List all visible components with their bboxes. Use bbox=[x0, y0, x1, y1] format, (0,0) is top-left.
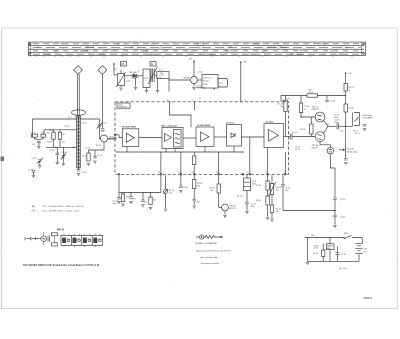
svg-text:C1.34: C1.34 bbox=[183, 187, 188, 189]
wire decoupling chain top bbox=[334, 168, 336, 198]
svg-text:C26–L64–C9: C26–L64–C9 bbox=[290, 54, 303, 56]
pin dot 2 bbox=[180, 174, 182, 176]
svg-text:C1.15: C1.15 bbox=[295, 147, 300, 149]
svg-text:100μ: 100μ bbox=[334, 117, 338, 119]
ground C1.35 bbox=[192, 206, 196, 208]
svg-text:C1.10: C1.10 bbox=[82, 172, 87, 174]
svg-text:R1.19: R1.19 bbox=[349, 108, 354, 110]
gen resistor bottom bbox=[52, 243, 58, 246]
switch bank pin ticks bbox=[64, 234, 100, 247]
wire B3 to B4 bbox=[214, 136, 227, 138]
block B1 RF amplifier bbox=[122, 129, 139, 147]
svg-text:2: 2 bbox=[102, 70, 104, 72]
ferrite rod antenna stem 2 bbox=[78, 74, 80, 116]
wire pin leg 4 bbox=[218, 152, 220, 174]
wire B4 to B5 bbox=[242, 136, 265, 138]
wire B2 bottom leg b bbox=[174, 149, 176, 153]
wire pot feed bbox=[271, 175, 273, 183]
wire C1.05 bottom bbox=[39, 161, 41, 165]
bar wire dashes row 3 bbox=[33, 50, 361, 52]
ground R1.24 bbox=[266, 218, 270, 220]
wire +VB right stub bbox=[345, 74, 347, 84]
svg-text:50k: 50k bbox=[169, 193, 172, 195]
wire R1.19 down bbox=[345, 112, 347, 158]
wire C1.35 down bbox=[193, 201, 195, 205]
bar right terminal column bbox=[361, 42, 363, 56]
wire pin2 stub down bbox=[180, 175, 182, 185]
wire U2 bottom left bbox=[196, 87, 203, 89]
svg-text:2V: 2V bbox=[327, 124, 330, 126]
ferrite rod body bbox=[77, 116, 81, 168]
wire R1.18 top bbox=[310, 117, 312, 124]
cap C1.35 bbox=[192, 199, 196, 201]
wire Q1 emitter join bbox=[324, 120, 329, 133]
junction dot output bbox=[345, 126, 346, 127]
svg-text:C1.06: C1.06 bbox=[49, 150, 55, 152]
pin dot 6 bbox=[249, 174, 251, 176]
wire R1.15 down bbox=[285, 112, 287, 137]
svg-text:L75–C35: L75–C35 bbox=[252, 44, 261, 46]
junction dot U2 b bbox=[214, 88, 215, 89]
page margin mark bbox=[1, 157, 5, 162]
ground under R1.05 bbox=[87, 164, 91, 166]
pin dot 5 bbox=[242, 174, 244, 176]
IC internal bottom rail bbox=[116, 151, 244, 153]
svg-text:2: 2 bbox=[112, 133, 113, 135]
wire R1.06 down bbox=[218, 193, 220, 208]
rod bottom wire bbox=[78, 168, 80, 170]
wire V join right bbox=[39, 137, 43, 140]
svg-text:16: 16 bbox=[158, 172, 160, 174]
svg-text:C58–L12: C58–L12 bbox=[140, 51, 149, 53]
FM filter box Y1 bbox=[157, 72, 169, 79]
IC1 dashed outline bbox=[115, 102, 289, 175]
supply stub arrowhead bbox=[113, 62, 115, 64]
resistor R1.18 bbox=[310, 124, 313, 134]
resistor R1.24 bbox=[266, 196, 269, 205]
svg-text:50μ: 50μ bbox=[197, 202, 200, 204]
bar end circle top bbox=[363, 43, 365, 45]
wire diode to osc coil bbox=[136, 75, 143, 77]
R1.08 arrow bbox=[268, 182, 275, 197]
svg-text:Sp–01M: Sp–01M bbox=[347, 148, 355, 150]
wire AGC feedback bbox=[283, 210, 335, 212]
wire gang to filter box bbox=[155, 75, 157, 77]
coupling cap C1.14 bbox=[290, 134, 292, 140]
svg-text:C1.25: C1.25 bbox=[340, 217, 346, 219]
test point diamond T2 bbox=[98, 66, 107, 75]
ground under C1.06 bbox=[56, 163, 60, 165]
svg-text:L7.1: L7.1 bbox=[219, 83, 224, 85]
trimmer C1.08 bbox=[62, 156, 66, 158]
wire pin2 to RF amp bbox=[116, 135, 122, 138]
svg-text:Amplifier: Amplifier bbox=[266, 120, 275, 123]
ground volume bbox=[164, 209, 168, 211]
svg-text:L1.02: L1.02 bbox=[82, 123, 87, 125]
svg-text:Measured with FM mute 0.05 m: Measured with FM mute 0.05 mV 5% bbox=[196, 250, 230, 253]
svg-text:R1.22: R1.22 bbox=[349, 87, 355, 89]
svg-text:Fig. 7(a): Fig. 7(a) bbox=[339, 268, 347, 270]
resistor R1.31 bbox=[121, 194, 124, 202]
svg-text:87.5 – 100 MHz (3.00 – 3.43 m): 87.5 – 100 MHz (3.00 – 3.43 m) – 3.2 m bbox=[43, 211, 80, 213]
BU1 aux cap bbox=[363, 125, 367, 127]
wire FM to mixer diode bbox=[125, 75, 134, 77]
svg-text:1k: 1k bbox=[349, 90, 351, 92]
preset R1.08 bbox=[270, 184, 273, 195]
wire C1.19 down bbox=[282, 186, 284, 211]
wire R1.22 down bbox=[345, 91, 347, 104]
supply stub left bbox=[113, 64, 115, 76]
svg-text:2p2: 2p2 bbox=[102, 131, 105, 133]
IF transformer S1.4 feed bbox=[246, 174, 248, 178]
wire chain mid bbox=[334, 200, 336, 215]
svg-text:+VB: +VB bbox=[311, 235, 316, 237]
svg-text:S1.02: S1.02 bbox=[96, 145, 101, 147]
resistor R1.05 bbox=[87, 153, 90, 161]
resistor R1.16 bbox=[299, 103, 302, 113]
wire under R1.04 bbox=[59, 139, 61, 147]
earphone socket BU1 bbox=[353, 113, 360, 127]
resistor R1.02 bbox=[41, 134, 45, 137]
switch cell 4 contact bbox=[94, 238, 101, 243]
svg-text:680: 680 bbox=[153, 200, 156, 202]
svg-text:25k: 25k bbox=[276, 190, 279, 192]
ground C1.34 bbox=[179, 191, 183, 193]
svg-text:2SB178: 2SB178 bbox=[312, 109, 320, 111]
svg-text:C1.3: C1.3 bbox=[159, 70, 164, 72]
battery VB cells bbox=[355, 243, 362, 253]
svg-text:Δf 10.7: Δf 10.7 bbox=[203, 80, 210, 83]
wire FM coil bottom bbox=[120, 86, 122, 88]
svg-text:4k7: 4k7 bbox=[63, 134, 66, 136]
junction dot Q1 base bbox=[300, 116, 301, 117]
ground C1.31 bbox=[117, 202, 121, 204]
wire R1.28 top bbox=[322, 244, 324, 251]
wire R1.16 to Q1 base bbox=[301, 113, 315, 118]
svg-text:2k2: 2k2 bbox=[197, 186, 200, 188]
wire R1.18 bottom bbox=[310, 134, 312, 137]
wire B5 bottom leg bbox=[267, 148, 269, 174]
resistor R1.19 bbox=[344, 104, 347, 112]
pin dot 4 bbox=[218, 174, 220, 176]
wire C1.28 top bbox=[337, 247, 339, 253]
svg-text:4.5V: 4.5V bbox=[314, 248, 319, 250]
svg-text:TDA1083: TDA1083 bbox=[118, 106, 128, 109]
ground under C1.05 bbox=[38, 166, 42, 168]
cap C1.19 bbox=[281, 184, 285, 186]
wire rod to AM trimmer bbox=[80, 119, 99, 124]
battery circuit bottom wire bbox=[308, 260, 360, 262]
mains unit box bbox=[326, 244, 334, 250]
gen resistor top bbox=[52, 233, 58, 236]
svg-text:10μ: 10μ bbox=[285, 190, 288, 192]
resistor R1.25 bbox=[270, 205, 273, 213]
svg-text:10n: 10n bbox=[62, 142, 65, 144]
svg-text:14: 14 bbox=[178, 172, 180, 174]
wire pin3 stub down bbox=[193, 175, 195, 179]
B2 squiggle 3 bbox=[175, 142, 180, 143]
B2 squiggle 2 bbox=[175, 138, 180, 139]
output transistor TS1.18 bbox=[315, 132, 325, 142]
IC pin circle 2 bbox=[114, 134, 116, 136]
trimmer C1.02 arrow bbox=[97, 123, 103, 129]
block B3 IF amplifier bbox=[196, 127, 214, 147]
svg-text:AC128: AC128 bbox=[312, 146, 319, 149]
wire left cluster riser bbox=[118, 175, 120, 192]
resistor R1.23 bbox=[266, 181, 269, 190]
svg-text:10V: 10V bbox=[340, 131, 344, 133]
aux jack symbol bbox=[25, 237, 33, 240]
ground R1.25 bbox=[270, 219, 274, 221]
cap C1.12 bbox=[245, 202, 249, 204]
svg-text:517 – 1621 kHz (185.1 – 580.5: 517 – 1621 kHz (185.1 – 580.5 m) – 187.2… bbox=[43, 206, 85, 208]
svg-text:R1.15: R1.15 bbox=[278, 104, 284, 106]
series resistor R1.21 bbox=[307, 94, 318, 97]
svg-text:7: 7 bbox=[265, 172, 266, 174]
svg-text:C1.03: C1.03 bbox=[47, 142, 52, 144]
volume control R1.09 bbox=[164, 189, 168, 193]
SP1 inner marks bbox=[329, 150, 332, 152]
junction dot battery top bbox=[316, 237, 317, 238]
svg-text:R1.10: R1.10 bbox=[237, 196, 242, 198]
cap C1.09 bbox=[32, 171, 36, 173]
ground under C1.07 bbox=[93, 161, 97, 163]
voltmeter plus bbox=[201, 236, 203, 238]
switch bank divider 3 bbox=[91, 235, 93, 245]
IF transformer S1.4 bbox=[244, 178, 251, 191]
AM trimmer C1.02 bbox=[98, 125, 102, 127]
wire speaker down bbox=[330, 154, 335, 168]
ground under C1.08 bbox=[62, 163, 66, 165]
battery bottom wire bbox=[358, 253, 360, 261]
junction dot lower rail a bbox=[55, 147, 56, 148]
wire Q2 emitter to speaker bbox=[320, 142, 330, 148]
bar left terminal column bbox=[30, 42, 32, 56]
svg-text:R2.05: R2.05 bbox=[197, 86, 202, 88]
svg-text:C-P: C-P bbox=[36, 47, 40, 49]
bar hanging ticks bbox=[30, 56, 352, 57]
junction mains top bbox=[329, 237, 330, 238]
FM rf transistor TS2.01 bbox=[191, 77, 198, 84]
electrolytic C1.23 bbox=[333, 198, 337, 200]
svg-text:VB: VB bbox=[364, 249, 367, 251]
svg-text:R1.03: R1.03 bbox=[49, 130, 54, 132]
wire B4 bottom leg bbox=[233, 146, 235, 152]
ground stub under Y1 bbox=[157, 79, 159, 90]
wire output node bbox=[328, 125, 336, 127]
ground under C1.21 bbox=[344, 163, 348, 165]
C1.09 wire bbox=[33, 172, 35, 175]
wire R1.23 mid bbox=[267, 190, 269, 196]
cap C1.06 bbox=[56, 153, 60, 155]
wire C1.06 bottom bbox=[56, 155, 58, 162]
svg-text:TP: TP bbox=[199, 98, 202, 100]
svg-text:CB4451: CB4451 bbox=[363, 296, 373, 300]
wire to TS1.06 bbox=[219, 207, 222, 209]
ground C1.32 bbox=[129, 202, 133, 204]
svg-text:AC126: AC126 bbox=[230, 207, 236, 210]
svg-text:C44–L29: C44–L29 bbox=[205, 54, 214, 56]
bar left circle bottom bbox=[29, 53, 31, 55]
cap C1.28 bbox=[336, 253, 340, 255]
svg-text:R3: R3 bbox=[121, 63, 125, 66]
wire R1.08 down bbox=[271, 195, 273, 206]
wire R1.05 top bbox=[88, 150, 90, 153]
battery circuit top wire bbox=[305, 237, 344, 239]
B2 squiggle 1 bbox=[175, 133, 180, 134]
wire pin7 down bbox=[267, 175, 269, 181]
switch bank divider 1 bbox=[70, 235, 72, 245]
block B2 mixer oscillator bbox=[162, 127, 183, 148]
ground battery left bbox=[306, 262, 310, 264]
svg-text:C1.09: C1.09 bbox=[28, 170, 33, 172]
ground under C1.09 bbox=[32, 176, 36, 178]
cap C1.33 bbox=[141, 200, 145, 202]
generator G1 bbox=[41, 236, 47, 242]
cap C1.13 stub bbox=[326, 96, 328, 100]
wire B2 bottom leg a bbox=[165, 149, 167, 153]
svg-text:TP1: TP1 bbox=[287, 98, 292, 100]
aux cross mark bbox=[34, 237, 37, 240]
battery circuit left wire bbox=[307, 238, 309, 262]
antenna coil L1.01 ellipse bbox=[72, 110, 86, 115]
wire R1.28 bottom bbox=[322, 256, 324, 261]
ground FM b bbox=[145, 91, 149, 93]
wire R1.25 down bbox=[271, 213, 273, 219]
svg-text:MIX + OSCILLAT: MIX + OSCILLAT bbox=[162, 124, 178, 127]
svg-text:+: + bbox=[365, 242, 367, 244]
svg-text:JW2–C54: JW2–C54 bbox=[85, 47, 95, 49]
svg-text:AF115: AF115 bbox=[109, 138, 114, 141]
SK1a contact dots bbox=[343, 237, 344, 238]
junction dot IC top c bbox=[240, 101, 241, 102]
wire C1.14 to Q2 base bbox=[292, 136, 315, 138]
FM tuner coil S2.01 bbox=[118, 74, 125, 86]
wire B1 bottom leg bbox=[126, 147, 128, 153]
svg-text:–for popular traveller: –for popular traveller bbox=[200, 262, 219, 265]
R1.09 wiper arrow bbox=[163, 189, 168, 194]
FM filter box Z7.1 bbox=[218, 79, 228, 88]
wire TS2.01 collector up bbox=[193, 61, 195, 77]
wire volume bottom bbox=[165, 193, 167, 208]
wire pin8 down bbox=[282, 175, 284, 184]
svg-text:1k: 1k bbox=[304, 109, 306, 111]
wire C1.33 stub bbox=[142, 193, 144, 201]
svg-text:MR AR: MR AR bbox=[184, 77, 191, 80]
wire R1.07 down bbox=[193, 189, 195, 200]
svg-text:+VB: +VB bbox=[243, 62, 248, 64]
wire pin leg 3 upper bbox=[193, 152, 195, 156]
junction dot AGC bbox=[334, 210, 335, 211]
svg-text:1k8: 1k8 bbox=[276, 211, 279, 213]
wire R1.24 down bbox=[267, 205, 269, 217]
wire FM coupling bbox=[114, 74, 118, 76]
svg-text:C2.06: C2.06 bbox=[144, 78, 149, 80]
pin dot 1 bbox=[160, 174, 162, 176]
svg-text:3k3: 3k3 bbox=[126, 197, 129, 199]
svg-text:1n: 1n bbox=[145, 202, 147, 204]
resistor R1.03 bbox=[52, 132, 55, 139]
designator box Z2 bbox=[150, 62, 156, 67]
TS2.01 supply arrowhead bbox=[193, 60, 195, 62]
bar wire dashes row 1 bbox=[33, 43, 361, 45]
pin dot 7 bbox=[267, 174, 269, 176]
voltmeter lead left bbox=[196, 236, 199, 238]
svg-text:L31–C70: L31–C70 bbox=[225, 51, 234, 53]
svg-text:C1.13: C1.13 bbox=[330, 101, 336, 103]
svg-text:4Ω/8Ω–50Ω: 4Ω/8Ω–50Ω bbox=[347, 151, 358, 153]
ground under TS2.01 bbox=[192, 88, 196, 90]
svg-text:1n: 1n bbox=[138, 71, 140, 73]
wire C1.32 stub bbox=[130, 193, 132, 197]
voltmeter probe circle bbox=[199, 235, 203, 239]
svg-text:L05–C31: L05–C31 bbox=[196, 44, 205, 46]
trimmer C1.05 arrow bbox=[37, 158, 43, 164]
bar wire dashes row 2 bbox=[33, 46, 361, 48]
wire B1 to B2 bbox=[139, 137, 162, 139]
wire left cluster feed bbox=[160, 175, 162, 192]
svg-text:R1.01: R1.01 bbox=[31, 133, 36, 135]
junction dot IC top b bbox=[194, 101, 195, 102]
wire R1.32 stub bbox=[150, 193, 152, 198]
svg-text:THE ON/OFF SWITCH SK–B added t: THE ON/OFF SWITCH SK–B added this circui… bbox=[23, 264, 100, 267]
svg-text:5: 5 bbox=[283, 172, 284, 174]
junction dot IC top a bbox=[169, 101, 170, 102]
B2 filter cell bbox=[174, 130, 182, 148]
wire cap branch bbox=[94, 150, 96, 157]
svg-text:L2.01: L2.01 bbox=[126, 81, 131, 83]
supply rail left stub bbox=[280, 96, 282, 102]
wire pin leg 2 bbox=[180, 152, 182, 174]
svg-text:150: 150 bbox=[309, 90, 312, 92]
IC pin circle 1 bbox=[114, 138, 116, 140]
S1.4 windings bbox=[244, 182, 251, 186]
svg-text:RF AMPLIFIER: RF AMPLIFIER bbox=[122, 126, 136, 129]
wire osc coil bottom bbox=[146, 88, 148, 90]
svg-text:R1.18: R1.18 bbox=[300, 129, 305, 131]
wire rail drop b bbox=[300, 96, 302, 104]
cap C1.07 bbox=[93, 157, 97, 159]
on-off switch SK1a bbox=[344, 235, 362, 238]
ferrite rod winding hatch bbox=[77, 117, 81, 167]
resistor R1.07 bbox=[193, 180, 196, 189]
supply line to IC top bbox=[240, 62, 242, 102]
agc transistor TS1.06 bbox=[222, 204, 229, 211]
svg-text:with a small needle: with a small needle bbox=[200, 256, 219, 259]
svg-text:9: 9 bbox=[247, 172, 248, 174]
ferrite rod core line bbox=[78, 116, 80, 168]
ferrite rod antenna stem bbox=[76, 74, 78, 116]
cap C1.21 bbox=[344, 159, 348, 161]
cap C1.32 bbox=[129, 197, 133, 199]
wire Y1 down bbox=[168, 79, 170, 92]
svg-text:MR–AR: MR–AR bbox=[130, 71, 138, 74]
C1.08 arrow bbox=[61, 154, 66, 160]
svg-text:R1.21: R1.21 bbox=[309, 92, 315, 94]
electrolytic C1.25 bbox=[333, 215, 337, 217]
switch cell 3 contact bbox=[83, 238, 90, 243]
wire C1.06 top bbox=[56, 147, 58, 153]
resistor R1.11 internal bbox=[193, 156, 196, 165]
SP1 pointer arrow bbox=[339, 149, 345, 151]
cap C1.34 bbox=[179, 186, 183, 188]
voltmeter zigzag bbox=[204, 235, 217, 238]
bar row line 1 bbox=[29, 45, 365, 47]
diode GR2.01 bbox=[133, 74, 136, 78]
wire under R1.03 bbox=[53, 139, 55, 147]
aux wire bbox=[33, 238, 41, 240]
svg-text:C1.14: C1.14 bbox=[292, 132, 298, 134]
